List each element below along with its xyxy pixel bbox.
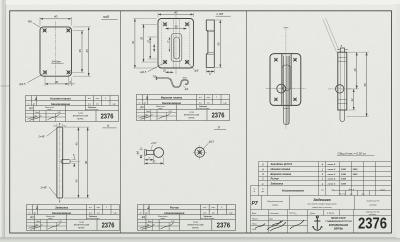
svg-text:Нижняя планка: Нижняя планка — [271, 167, 291, 171]
rod below strip — [340, 110, 345, 121]
channel edges — [282, 54, 291, 106]
svg-text:ф8: ф8 — [195, 69, 199, 73]
svg-text:ГЛАВВОЕНМОРСТРОЯ: ГЛАВВОЕНМОРСТРОЯ — [326, 220, 353, 223]
svg-text:1939: 1939 — [341, 184, 347, 186]
svg-text:положение №: положение № — [367, 200, 381, 203]
svg-text:марки: марки — [272, 205, 279, 207]
rod cross line at plate bottom — [283, 105, 289, 108]
svg-text:35: 35 — [140, 37, 144, 40]
svg-text:Составил: Составил — [270, 213, 280, 215]
svg-text:80: 80 — [363, 83, 367, 86]
paper edge line left — [5, 5, 6, 238]
title block grid — [251, 210, 392, 226]
side strip body — [338, 52, 347, 110]
svg-text:90: 90 — [84, 161, 88, 164]
side knob centerline — [328, 88, 352, 90]
svg-text:1: 1 — [36, 206, 38, 210]
svg-text:5 XII 39: 5 XII 39 — [327, 213, 334, 215]
svg-text:помещение №: помещение № — [366, 211, 380, 214]
svg-text:35: 35 — [78, 49, 82, 53]
lever side view: flange — [145, 150, 147, 156]
svg-text:4: 4 — [34, 97, 37, 101]
svg-text:кол: кол — [321, 190, 324, 192]
svg-text:30: 30 — [174, 25, 178, 29]
svg-text:Нижняя планка: Нижняя планка — [50, 97, 71, 101]
slot guide assembly — [282, 65, 291, 91]
svg-text:45: 45 — [131, 41, 135, 44]
svg-text:∠10°: ∠10° — [151, 142, 157, 145]
plate P4 — [40, 27, 72, 76]
svg-text:лист 3: лист 3 — [327, 184, 336, 186]
fold mark left margin — [1, 85, 10, 87]
hole TL — [43, 29, 46, 32]
dim 6 below side strip — [206, 69, 214, 73]
svg-text:Верхняя планка: Верхняя планка — [161, 96, 183, 100]
dim 20 below P3 — [166, 71, 174, 73]
svg-text:лист 3: лист 3 — [327, 178, 336, 180]
hole BR — [67, 71, 70, 74]
right dims 45/45/90 — [64, 127, 90, 198]
svg-text:22: 22 — [147, 40, 150, 44]
corner hole BL — [274, 98, 277, 101]
corner hole TR — [294, 58, 297, 61]
parts table grid — [251, 162, 392, 196]
side strip P3 — [206, 20, 214, 68]
svg-text:45: 45 — [75, 179, 79, 182]
corner hole TL — [274, 58, 277, 61]
svg-text:Задвижка: Задвижка — [55, 206, 69, 210]
knob bulge side — [336, 85, 344, 93]
svg-text:42: 42 — [350, 98, 354, 101]
svg-text:45: 45 — [217, 42, 221, 46]
svg-text:для дверей шкафа боцманской: для дверей шкафа боцманской — [307, 203, 337, 206]
side dims 45 42 80 — [347, 52, 369, 116]
stamp part2 — [138, 205, 236, 231]
svg-text:лист 2: лист 2 — [327, 164, 336, 166]
phantom open-position lines — [323, 18, 339, 52]
svg-text:1938: 1938 — [341, 174, 347, 176]
svg-text:Р7: Р7 — [252, 201, 258, 207]
bottom shadow under sheet — [0, 237, 400, 242]
svg-text:Вес 4 шт: Вес 4 шт — [339, 194, 346, 196]
stamp part3 — [137, 95, 230, 121]
lever front view circle — [195, 147, 205, 157]
lever ball — [154, 148, 164, 158]
svg-text:ф3,5: ф3,5 — [140, 70, 146, 74]
centerline part3 — [175, 15, 177, 75]
svg-text:МССП-СССР: МССП-СССР — [331, 218, 346, 220]
hole BL — [43, 71, 46, 74]
svg-text:Заклёпки ф3×11: Заклёпки ф3×11 — [271, 162, 293, 166]
assembly plate — [270, 54, 301, 106]
dim 45 side — [216, 20, 223, 68]
svg-text:Рычаг: Рычаг — [170, 206, 180, 210]
svg-text:м-б: м-б — [331, 190, 334, 192]
knob circle — [277, 84, 286, 93]
svg-text:5: 5 — [296, 214, 297, 216]
svg-text:70°: 70° — [153, 76, 157, 79]
pin boss mid — [61, 159, 70, 163]
svg-text:ф3,5: ф3,5 — [19, 82, 26, 86]
slot — [174, 37, 179, 59]
svg-text:R6: R6 — [28, 19, 32, 23]
svg-text:40: 40 — [174, 10, 178, 14]
centerline part1 — [59, 124, 61, 203]
svg-text:Утв.: Утв. — [252, 229, 257, 231]
svg-text:лист 3: лист 3 — [327, 169, 336, 171]
dimension 30 under top holes — [166, 28, 187, 30]
svg-text:1939: 1939 — [353, 174, 359, 176]
svg-text:Начал.: Начал. — [252, 218, 258, 220]
anchor emblem — [312, 216, 323, 230]
dim 8 top — [337, 48, 348, 50]
vertical divider between part4 zone and part3 zone — [120, 11, 122, 233]
svg-text:45: 45 — [85, 49, 89, 53]
svg-text:Верхняя планка: Верхняя планка — [271, 172, 292, 176]
left page edge shadow — [0, 0, 6, 242]
small inner dims — [168, 37, 170, 51]
svg-text:по/8: по/8 — [103, 15, 109, 19]
bolt bar P1 — [57, 127, 63, 198]
svg-text:45: 45 — [353, 68, 357, 71]
svg-text:20: 20 — [162, 69, 166, 72]
svg-text:3: 3 — [146, 96, 148, 100]
hole BL — [163, 60, 166, 63]
hole TR — [185, 23, 188, 26]
guide outline — [171, 34, 182, 62]
knob centerline — [266, 88, 306, 90]
svg-text:Общий вес = 0,50 кг: Общий вес = 0,50 кг — [338, 151, 367, 155]
svg-text:Д.Б.: Д.Б. — [269, 218, 274, 220]
lever pin — [146, 151, 153, 155]
vertical divider before assembly zone — [246, 11, 248, 233]
lever left dim — [140, 150, 144, 156]
svg-text:Рычаг: Рычаг — [271, 177, 280, 181]
centerline part4 — [55, 22, 57, 85]
svg-text:дет: дет — [261, 191, 264, 193]
bolt rod in assembly — [283, 56, 289, 125]
svg-text:1939: 1939 — [353, 169, 359, 171]
signature scribbles — [255, 220, 304, 231]
svg-text:Задвижка: Задвижка — [271, 182, 284, 186]
inner channel dotted lines — [173, 19, 179, 69]
svg-text:1938: 1938 — [341, 169, 347, 171]
svg-text:изделия: изделия — [369, 204, 377, 207]
svg-text:п.б/8: п.б/8 — [217, 12, 224, 16]
left dims of part3 — [134, 19, 157, 69]
right dims 35 / 45 — [70, 27, 91, 76]
hole TL — [163, 23, 166, 26]
dimension 40 top — [158, 13, 194, 17]
stamp part1 — [27, 205, 120, 231]
svg-text:40: 40 — [54, 15, 58, 19]
dims 7 and 23 — [145, 156, 164, 165]
svg-text:Прим.: Прим. — [380, 190, 386, 192]
svg-text:30: 30 — [55, 80, 59, 84]
svg-text:лист 3: лист 3 — [327, 174, 336, 176]
bolt tip tab — [340, 48, 344, 52]
svg-text:ф13: ф13 — [209, 140, 215, 144]
svg-text:2: 2 — [261, 177, 264, 181]
svg-text:2376: 2376 — [358, 215, 387, 232]
svg-text:Вес, кг: Вес, кг — [349, 189, 355, 191]
plate P3 — [158, 19, 194, 69]
svg-text:Дата: Дата — [309, 213, 315, 215]
svg-text:Наименование: Наименование — [282, 189, 304, 193]
bolt core lines — [286, 56, 288, 124]
svg-text:ВЕРФЬ: ВЕРФЬ — [334, 227, 343, 230]
svg-text:S=2мм: S=2мм — [52, 60, 61, 64]
svg-text:дет: дет — [350, 194, 353, 196]
hole TR — [67, 29, 70, 32]
right page edge — [397, 4, 400, 238]
svg-text:Задвижка: Задвижка — [313, 198, 330, 202]
svg-text:2: 2 — [146, 206, 149, 210]
dimension 40 top — [40, 17, 72, 25]
bent handle section (S-curve) — [157, 77, 189, 87]
svg-text:45: 45 — [75, 142, 79, 145]
centerline assembly — [285, 28, 287, 130]
svg-text:общий вид и детали: общий вид и детали — [312, 206, 332, 209]
hole BR — [185, 60, 188, 63]
svg-text:пп: пп — [253, 191, 255, 193]
stamp part4 — [26, 96, 119, 122]
corner hole BR — [294, 98, 297, 101]
dimension 30 bottom — [45, 75, 72, 87]
top outer margin — [0, 0, 400, 6]
dim 9 at boss — [72, 159, 76, 163]
svg-text:Изработанные: Изработанные — [267, 201, 283, 203]
svg-text:2×45°: 2×45° — [40, 186, 48, 189]
svg-text:Пров.: Пров. — [252, 224, 257, 226]
svg-text:1938: 1938 — [341, 178, 347, 180]
svg-text:2×45°: 2×45° — [38, 136, 46, 139]
